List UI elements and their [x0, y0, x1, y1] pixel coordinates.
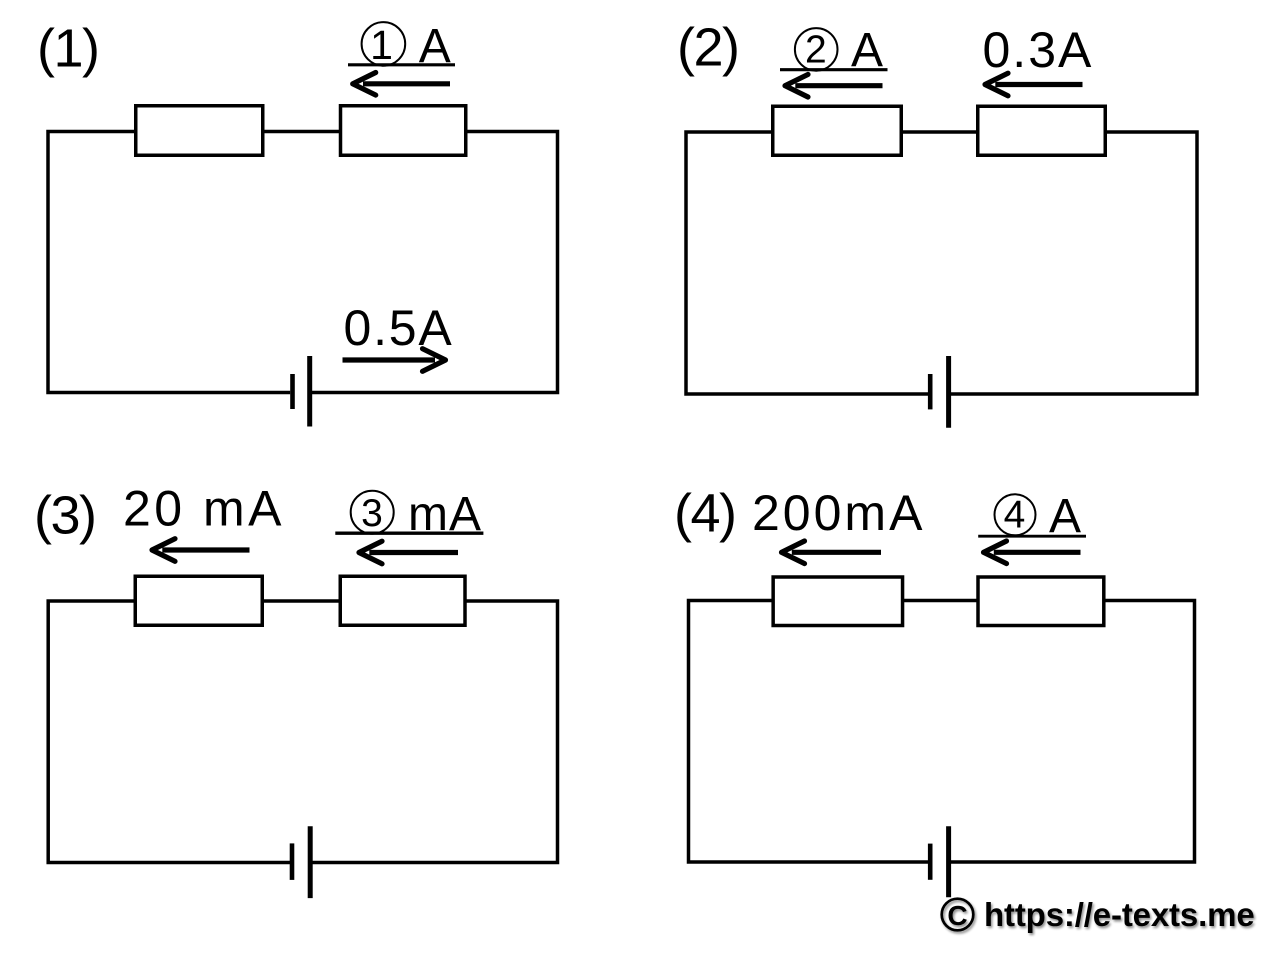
underline under circled 3 mA	[335, 532, 483, 535]
battery B1 short plate (negative)	[290, 374, 295, 409]
battery B3 long plate (positive)	[308, 826, 313, 898]
wire top-right+right+bottom-right of circuit 1	[312, 132, 558, 393]
resistor R5 (circuit 3 left)	[135, 576, 262, 625]
current arrow 0.3A (left, above right resistor of circuit 2)	[985, 73, 1083, 96]
wire between resistors circuit 1	[263, 130, 341, 134]
svg-text:200mA: 200mA	[752, 485, 925, 541]
battery B4 short plate (negative)	[928, 844, 933, 880]
wire left+top+bottom-left of circuit 4	[689, 601, 929, 863]
resistor R8 (circuit 4 right)	[978, 577, 1104, 626]
battery B2 long plate (positive)	[946, 356, 951, 428]
wire top-right+right+bottom-right of circuit 2	[951, 132, 1197, 394]
underline under circled 1 A	[348, 63, 455, 66]
resistor R3 (circuit 2 left)	[773, 106, 902, 155]
wire left+top+bottom-left of circuit 3	[48, 601, 290, 863]
label circled 4	[995, 494, 1036, 537]
label circled 3	[351, 491, 394, 536]
svg-text:0.3A: 0.3A	[983, 22, 1094, 78]
resistor R2 (circuit 1 right)	[341, 106, 466, 156]
svg-text:(3): (3)	[34, 486, 96, 546]
wire between resistors circuit 4	[903, 599, 980, 603]
svg-text:1: 1	[370, 22, 393, 68]
svg-text:(1): (1)	[37, 19, 99, 79]
svg-text:3: 3	[361, 492, 383, 535]
current arrow I3 (left, above right resistor of circuit 3)	[359, 541, 458, 564]
battery B1 long plate (positive)	[307, 356, 312, 427]
svg-text:C: C	[947, 900, 967, 931]
wire left+top+bottom-left of circuit 2	[686, 132, 928, 394]
current arrow I1 (left, above right resistor of circuit 1)	[353, 73, 450, 96]
current arrow 0.5A (right-pointing, bottom of circuit 1)	[343, 349, 446, 372]
label circled 1	[362, 22, 406, 68]
wire between resistors circuit 3	[262, 599, 341, 603]
svg-text:20 mA: 20 mA	[123, 481, 285, 537]
copyright mark shadow	[943, 898, 1256, 935]
battery B2 short plate (negative)	[928, 374, 933, 409]
current arrow 20mA (left, above left resistor of circuit 3)	[152, 539, 250, 562]
resistor R4 (circuit 2 right)	[978, 106, 1106, 155]
svg-text:2: 2	[805, 29, 827, 72]
label circled 2	[795, 28, 838, 71]
resistor R7 (circuit 4 left)	[773, 577, 902, 626]
svg-text:0.5A: 0.5A	[344, 300, 454, 356]
svg-text:(2): (2)	[677, 18, 739, 78]
wire top-right+right+bottom-right of circuit 3	[312, 601, 557, 863]
battery B4 long plate (positive)	[946, 826, 951, 897]
underline under circled 4 A	[978, 535, 1086, 538]
svg-text:(4): (4)	[674, 484, 736, 544]
current arrow I2 (left, above left resistor of circuit 2)	[785, 74, 883, 97]
current arrow 200mA (left, above left resistor of circuit 4)	[782, 541, 882, 564]
resistor R6 (circuit 3 right)	[340, 576, 465, 625]
copyright symbol	[942, 899, 974, 931]
svg-text:4: 4	[1004, 494, 1026, 537]
svg-text:https://e-texts.me: https://e-texts.me	[984, 896, 1255, 933]
underline under circled 2 A	[780, 68, 888, 71]
wire top-right+right+bottom-right of circuit 4	[951, 601, 1195, 863]
battery B3 short plate (negative)	[290, 843, 295, 880]
wire between resistors circuit 2	[901, 130, 979, 134]
current arrow I4 (left, above right resistor of circuit 4)	[984, 541, 1081, 564]
resistor R1 (circuit 1 left)	[136, 106, 263, 156]
wire left+top+bottom-left of circuit 1	[48, 132, 290, 393]
